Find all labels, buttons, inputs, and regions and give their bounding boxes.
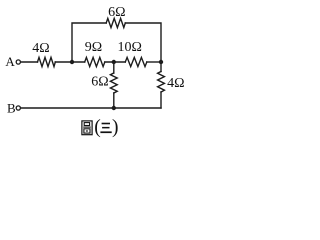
svg-text:(: ( xyxy=(94,117,101,138)
wire: middle junction down to 6ohm shunt xyxy=(113,62,115,73)
resistor 6ohm top xyxy=(106,18,125,27)
wire: bottom junction to right corner xyxy=(114,107,161,109)
svg-text:9Ω: 9Ω xyxy=(85,40,102,55)
resistor 4ohm shunt xyxy=(158,72,165,93)
junction: left (after 4ohm) xyxy=(70,60,74,64)
node B xyxy=(16,106,20,110)
wire: 10ohm to right junction xyxy=(147,61,161,63)
resistor 9ohm xyxy=(85,57,105,66)
wire: 4ohm to left junction and on to 9ohm xyxy=(55,61,84,63)
wire: top rail to right riser down to right junction xyxy=(125,23,161,62)
junction: bottom (6ohm shunt to bottom rail) xyxy=(112,106,116,110)
caption: figure character 圖 drawn as vector xyxy=(82,121,92,135)
svg-text:4Ω: 4Ω xyxy=(167,76,184,91)
node A xyxy=(16,60,20,64)
svg-text:A: A xyxy=(5,54,15,69)
svg-text:4Ω: 4Ω xyxy=(32,41,49,56)
wire: A terminal to 4ohm resistor xyxy=(21,61,38,63)
svg-text:6Ω: 6Ω xyxy=(108,5,125,20)
svg-text:10Ω: 10Ω xyxy=(117,40,141,55)
resistor 6ohm shunt xyxy=(110,73,117,93)
junction: right (after 10ohm) xyxy=(159,60,163,64)
wire: right junction down to 4ohm shunt xyxy=(160,62,162,72)
wire: 4ohm shunt down to bottom rail corner xyxy=(160,92,162,108)
resistor 4ohm series xyxy=(38,57,56,66)
resistor 10ohm xyxy=(125,57,147,66)
wire: 9ohm to middle junction to 10ohm xyxy=(105,61,126,63)
svg-text:6Ω: 6Ω xyxy=(91,74,108,89)
junction: middle (between 9ohm and 10ohm) xyxy=(112,60,116,64)
wire: 6ohm shunt to bottom junction xyxy=(113,93,115,108)
wire: left riser from left junction up to top rail xyxy=(72,23,106,62)
svg-text:B: B xyxy=(7,101,16,116)
svg-text:): ) xyxy=(112,117,119,138)
wire: B terminal to bottom junction xyxy=(21,107,114,109)
